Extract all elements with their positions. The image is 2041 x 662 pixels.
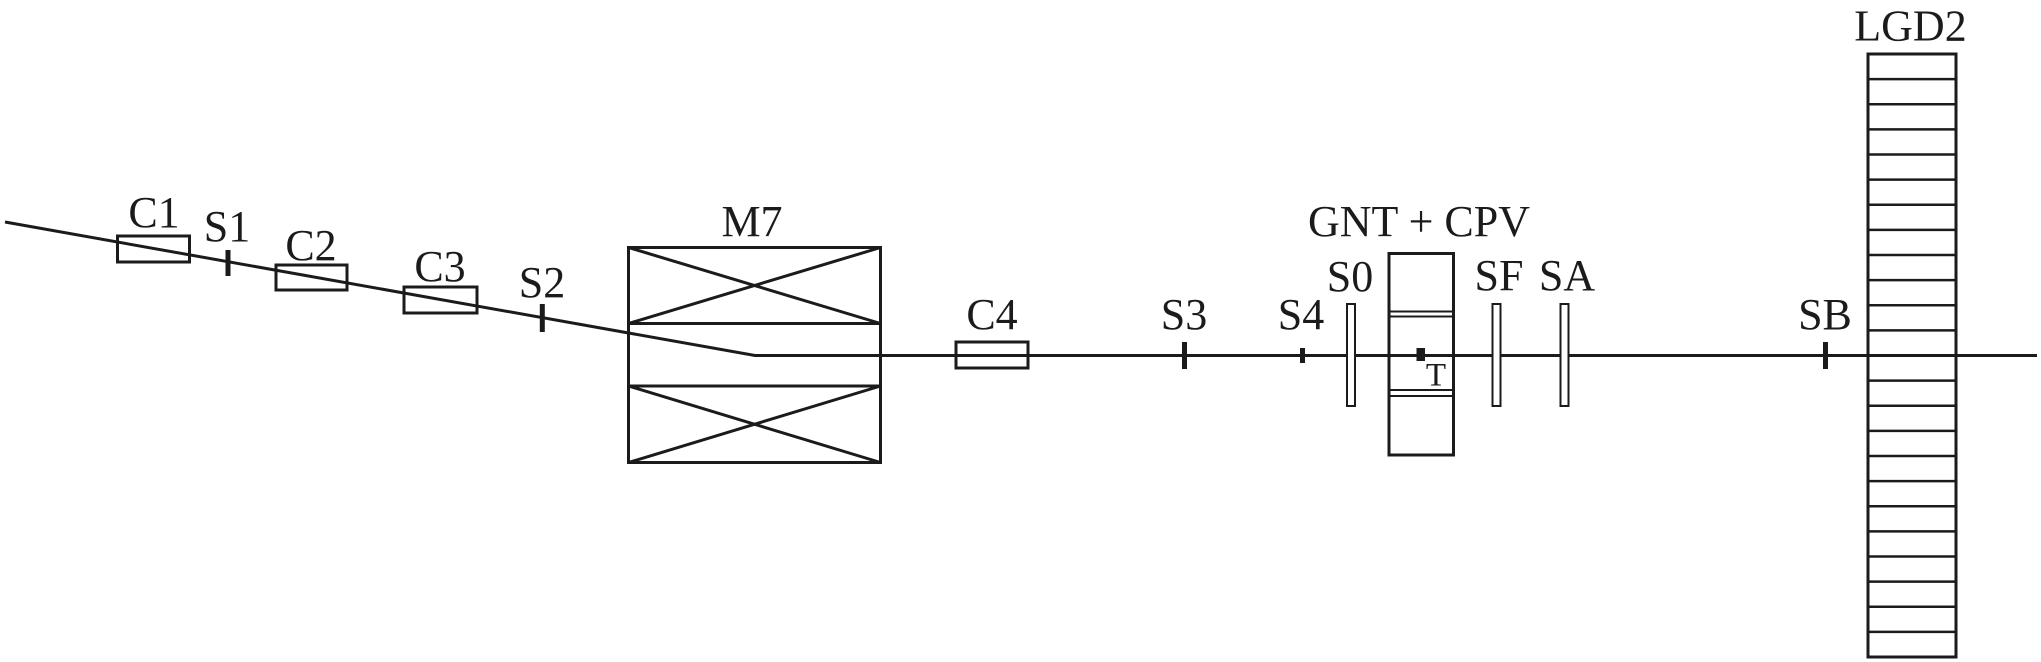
hodoscope S0 — [1327, 252, 1373, 406]
scintillator S1 — [204, 202, 250, 276]
target T — [1417, 348, 1447, 394]
svg-text:C3: C3 — [414, 242, 465, 291]
svg-text:SB: SB — [1798, 290, 1852, 339]
wire: beam line (diagonal + horizontal) — [5, 222, 2037, 356]
scintillator S4 — [1278, 290, 1324, 363]
svg-text:C4: C4 — [966, 290, 1017, 339]
svg-text:M7: M7 — [721, 197, 782, 246]
svg-text:LGD2: LGD2 — [1854, 2, 1966, 51]
counter C2 — [276, 221, 347, 290]
scintillator SB — [1798, 290, 1852, 369]
svg-text:S2: S2 — [519, 258, 565, 307]
scintillator S2 — [519, 258, 565, 332]
hodoscope SA — [1539, 251, 1595, 406]
svg-text:GNT + CPV: GNT + CPV — [1308, 197, 1530, 246]
svg-text:S4: S4 — [1278, 290, 1324, 339]
svg-text:S1: S1 — [204, 202, 250, 251]
svg-text:S3: S3 — [1161, 290, 1207, 339]
svg-text:T: T — [1426, 358, 1446, 394]
svg-text:C1: C1 — [128, 188, 179, 237]
svg-text:SA: SA — [1539, 251, 1595, 300]
svg-text:S0: S0 — [1327, 252, 1373, 301]
svg-text:SF: SF — [1475, 251, 1524, 300]
counter C1 — [118, 188, 190, 262]
scintillator S3 — [1161, 290, 1207, 369]
magnet M7 — [629, 197, 881, 463]
counter C4 — [956, 290, 1028, 368]
svg-text:C2: C2 — [285, 221, 336, 270]
detector GNT + CPV — [1308, 197, 1530, 455]
counter C3 — [404, 242, 477, 313]
calorimeter LGD2 — [1854, 2, 1966, 658]
hodoscope SF — [1475, 251, 1524, 406]
